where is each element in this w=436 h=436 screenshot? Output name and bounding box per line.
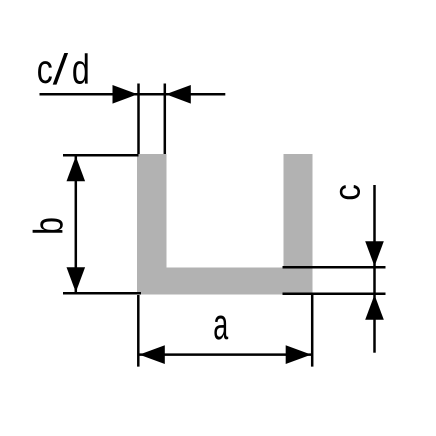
label c/d glyph d: [73, 53, 88, 84]
dimension c/d line left tail: [40, 93, 139, 96]
dimension a line: [139, 353, 311, 356]
dimension c line lower tail: [373, 294, 376, 353]
dimension c/d extension line left: [137, 84, 140, 155]
label c/d glyph slash: [53, 53, 68, 85]
dimension c arrow down: [365, 241, 384, 266]
label a: [214, 315, 228, 339]
dimension b extension line top: [63, 154, 139, 157]
dimension a extension line right: [311, 295, 314, 367]
dimension c/d arrow left: [113, 85, 138, 104]
dimension a extension line left: [137, 295, 140, 367]
dimension c arrow up: [365, 295, 384, 320]
dimension c line between: [373, 267, 376, 294]
dimension c line upper tail: [373, 185, 376, 267]
dimension a arrow left: [139, 345, 165, 364]
dimension b arrow top: [67, 156, 86, 181]
label c rotated: [340, 185, 360, 199]
dimension c/d extension line right: [164, 84, 167, 155]
dimension a arrow right: [286, 345, 312, 364]
dimension c/d arrow right: [166, 85, 191, 104]
dimension c/d line middle: [139, 93, 165, 96]
dimension b arrow bottom: [67, 267, 86, 292]
dimension c/d line right tail: [165, 93, 226, 96]
U-profile cross-section: [137, 154, 313, 295]
dimension c extension line bottom: [283, 293, 386, 296]
label c/d glyph c: [38, 61, 52, 83]
dimension b line: [75, 156, 78, 292]
dimension b extension line bottom: [63, 292, 141, 295]
label b: [33, 218, 63, 232]
dimension c extension line top: [283, 266, 386, 269]
